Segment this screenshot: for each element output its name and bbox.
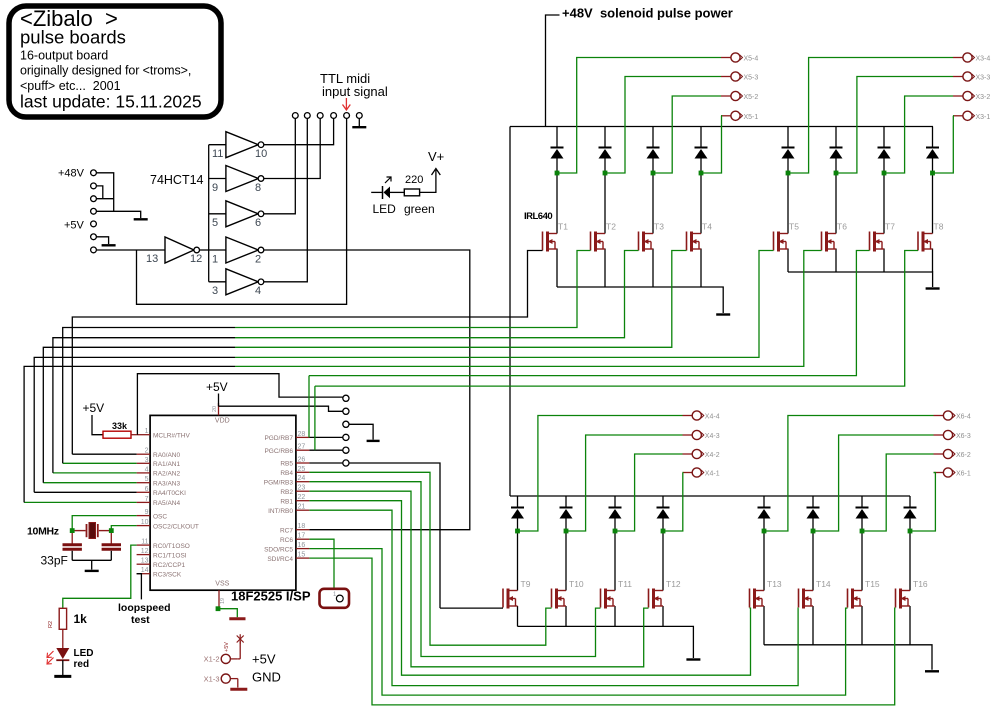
pin 1 MCLR#/THV <box>137 434 151 436</box>
wire pad2 down <box>96 186 102 199</box>
wire to LED green <box>371 191 382 193</box>
power pad 2 <box>91 183 97 189</box>
wire PGC riser <box>314 386 316 450</box>
svg-text:22: 22 <box>298 494 306 501</box>
svg-text:X3-1: X3-1 <box>976 114 991 121</box>
wire output net to X4-3 <box>566 435 683 531</box>
power pad 6 <box>91 234 97 240</box>
wire drain column T3 upper <box>652 127 654 148</box>
transistor T15 <box>848 589 863 609</box>
svg-text:X6-2: X6-2 <box>956 452 971 459</box>
wire to capacitor C1 33pF <box>71 533 73 544</box>
header pad 5 <box>344 113 350 119</box>
wire node to drain T15 <box>861 531 863 591</box>
wire diode to node T8 <box>932 159 934 174</box>
diode D3 <box>647 148 660 159</box>
wire VSS to ground <box>218 609 237 618</box>
svg-text:RB4: RB4 <box>280 470 293 477</box>
svg-text:10: 10 <box>141 519 149 526</box>
svg-text:X1-3: X1-3 <box>204 674 220 683</box>
wire source T1 <box>556 249 558 288</box>
wire output net to X6-2 <box>862 454 934 531</box>
wire output net to X5-2 <box>653 96 721 173</box>
svg-text:RB1: RB1 <box>280 498 293 505</box>
pin 22 RB1 <box>296 500 310 502</box>
svg-text:INT/RB0: INT/RB0 <box>268 508 293 515</box>
svg-text:11: 11 <box>141 539 148 546</box>
svg-text:RB2: RB2 <box>280 489 293 496</box>
wire source T6 <box>835 249 837 273</box>
wire 74HCT14 input bus <box>208 145 210 282</box>
wire RA3 to T4 gate (pin run) <box>43 482 136 484</box>
svg-text:33pF: 33pF <box>41 554 68 568</box>
node T9 drain junction <box>515 529 520 534</box>
svg-text:12: 12 <box>190 253 202 265</box>
supply +5V arrow X1 <box>237 634 244 659</box>
transistor T10 <box>552 589 567 609</box>
wire RC3 loopspeed test <box>137 574 142 600</box>
wire source T4 <box>700 249 702 288</box>
wire drain column T14 upper <box>812 496 814 508</box>
capacitor C1 33pF <box>63 545 82 550</box>
connector pin X3-1 <box>953 115 963 117</box>
svg-text:+5V: +5V <box>64 220 85 232</box>
pin 6 RA4/T0CKI <box>137 491 151 493</box>
transistor T1 <box>543 232 558 252</box>
svg-text:VSS: VSS <box>215 581 229 588</box>
wire source rail T9-T12 <box>518 626 694 658</box>
node T16 drain junction <box>908 529 913 534</box>
svg-text:9: 9 <box>145 509 149 516</box>
wire 1k to LED <box>62 629 64 648</box>
node T10 drain junction <box>564 529 569 534</box>
wire source T3 <box>652 249 654 288</box>
svg-text:+5V: +5V <box>224 642 230 652</box>
svg-text:220: 220 <box>405 174 423 186</box>
wire diode to node T10 <box>565 519 567 532</box>
wire node to drain T14 <box>812 531 814 591</box>
svg-text:IRL640: IRL640 <box>524 211 552 222</box>
diode D8 <box>926 148 939 159</box>
wire VDD to ICSP pad2 <box>219 406 343 411</box>
svg-text:1: 1 <box>212 253 218 265</box>
svg-text:LED: LED <box>74 648 94 659</box>
svg-text:4: 4 <box>255 285 261 297</box>
svg-text:RC3/SCK: RC3/SCK <box>153 571 182 578</box>
wire node to drain T8 <box>932 173 934 234</box>
ground ICSP <box>367 440 380 442</box>
svg-text:2: 2 <box>145 448 149 455</box>
node T3 drain junction <box>651 171 656 176</box>
wire pad4 to inverter out 10 <box>264 118 334 144</box>
svg-text:T3: T3 <box>654 222 664 232</box>
wire pad1 down <box>96 173 113 212</box>
diode D16 <box>904 508 917 519</box>
svg-text:18: 18 <box>298 523 306 530</box>
wire output net to X5-1 <box>701 116 722 173</box>
wire node to drain T9 <box>517 531 519 591</box>
wire pad2 to inverter out 4 <box>264 118 307 281</box>
resistor R2 1k <box>59 608 66 629</box>
svg-text:18F2525 I/SP: 18F2525 I/SP <box>231 589 311 604</box>
pin 27 PGC/RB6 <box>296 449 310 451</box>
wire RC0 to 1k <box>63 545 137 608</box>
svg-text:28: 28 <box>298 431 306 438</box>
wire diode to node T3 <box>652 159 654 174</box>
pin 13 RC2/CCP1 <box>137 563 151 565</box>
svg-text:10: 10 <box>255 148 267 160</box>
diode D14 <box>807 508 820 519</box>
diode D2 <box>599 148 612 159</box>
wire diode to node T14 <box>812 519 814 532</box>
svg-text:T12: T12 <box>666 579 681 589</box>
inverter gate 1->2 <box>209 237 264 263</box>
wire RA0 to T1 gate (right) <box>235 251 543 318</box>
svg-text:T2: T2 <box>606 222 616 232</box>
resistor R1 33k <box>103 431 131 438</box>
power pad 1 <box>91 170 97 176</box>
wire diode to node T15 <box>861 519 863 532</box>
wire RA2 to T3 gate (pin run) <box>53 472 137 474</box>
svg-text:12: 12 <box>141 548 149 555</box>
svg-text:17: 17 <box>298 533 306 540</box>
diode D1 <box>551 148 564 159</box>
svg-text:16-output board: 16-output board <box>20 49 108 63</box>
connector pin X6-1 <box>934 472 944 474</box>
svg-text:1k: 1k <box>74 612 88 626</box>
resistor 220 <box>404 189 419 196</box>
wire pad3 join <box>96 198 113 200</box>
node T5 drain junction <box>786 171 791 176</box>
inverter gate 13->12 <box>97 237 209 263</box>
pin 9 OSC <box>137 515 151 517</box>
svg-text:X4-4: X4-4 <box>705 414 720 421</box>
LED red diode <box>47 648 69 664</box>
svg-text:LED: LED <box>373 202 397 216</box>
transistor T5 <box>774 232 789 252</box>
IC U1 18F2525 body <box>150 415 296 590</box>
node T4 drain junction <box>699 171 704 176</box>
svg-text:RC6: RC6 <box>280 537 293 544</box>
ICSP pad 3 <box>343 421 349 427</box>
wire source T10 <box>565 606 567 626</box>
svg-text:+48V solenoid pulse power: +48V solenoid pulse power <box>562 6 733 21</box>
connector pin X4-4 <box>683 415 693 417</box>
wire output net to X6-1 <box>910 473 935 532</box>
transistor T13 <box>750 589 765 609</box>
wire source T9 <box>517 606 519 626</box>
node T15 drain junction <box>860 529 865 534</box>
wire RA2 to T3 gate (right) <box>235 251 639 338</box>
ground T13-T16 <box>925 670 939 672</box>
transistor T2 <box>591 232 606 252</box>
pin 26 RB5 <box>296 462 310 464</box>
transistor T3 <box>639 232 654 252</box>
pin 18 RC7 <box>296 529 310 531</box>
svg-text:X6-1: X6-1 <box>956 471 971 478</box>
svg-text:X5-4: X5-4 <box>744 56 759 63</box>
ICSP pad 1 <box>343 395 349 401</box>
svg-text:RC2/CCP1: RC2/CCP1 <box>153 562 186 569</box>
svg-text:+5V: +5V <box>83 401 105 415</box>
wire RC5 to T15 gate <box>309 549 847 696</box>
connector pin X1-2 <box>230 658 237 660</box>
svg-text:X6-4: X6-4 <box>956 414 971 421</box>
svg-text:74HCT14: 74HCT14 <box>150 173 204 187</box>
svg-text:VDD: VDD <box>215 418 230 425</box>
svg-text:6: 6 <box>255 217 261 229</box>
wire RB6 to T8 gate <box>315 251 918 387</box>
svg-text:1: 1 <box>145 428 149 435</box>
connector pin X3-4 <box>953 57 963 59</box>
wire output net to X5-3 <box>605 77 721 174</box>
wire diode to node T4 <box>700 159 702 174</box>
wire +48V to lower bank <box>509 127 511 497</box>
wire PGD to ICSP pad4 <box>309 436 342 438</box>
wire RA3 to T4 gate (right) <box>235 251 687 348</box>
svg-text:X5-2: X5-2 <box>744 94 759 101</box>
wire drain column T16 upper <box>909 496 911 508</box>
pin 11 RC0/T1OSO <box>137 544 151 546</box>
ICSP pad 4 <box>343 434 349 440</box>
svg-text:SDI/RC4: SDI/RC4 <box>267 556 293 563</box>
wire source T12 <box>662 606 664 626</box>
wire source T7 <box>883 249 885 273</box>
diode D5 <box>782 148 795 159</box>
node T6 drain junction <box>834 171 839 176</box>
wire output net to X3-1 <box>933 116 954 173</box>
svg-text:X5-3: X5-3 <box>744 75 759 82</box>
svg-text:T16: T16 <box>913 579 928 589</box>
wire RB2 to T12 gate <box>309 491 648 667</box>
connector pin X6-3 <box>934 434 944 436</box>
transistor T12 <box>649 589 664 609</box>
pin 5 RA3/AN3 <box>137 482 151 484</box>
svg-text:T4: T4 <box>702 222 712 232</box>
wire ICSP pad3 to ground <box>349 424 373 439</box>
wire node to drain T12 <box>662 531 664 591</box>
wire diode to node T12 <box>662 519 664 532</box>
ground X1-3 <box>230 688 247 691</box>
wire node to drain T16 <box>909 531 911 591</box>
wire drain column T1 upper <box>556 127 558 148</box>
connector pin X4-2 <box>683 453 693 455</box>
svg-text:OSC: OSC <box>153 513 167 520</box>
wire +48V rail lower <box>510 495 910 497</box>
svg-text:9: 9 <box>212 182 218 194</box>
svg-text:23: 23 <box>298 485 306 492</box>
svg-text:originally designed for <troms: originally designed for <troms>, <box>20 64 191 78</box>
ICSP pad 6 <box>343 460 349 466</box>
wire node to drain T1 <box>556 173 558 234</box>
svg-text:R2: R2 <box>48 621 54 628</box>
svg-text:7: 7 <box>145 496 149 503</box>
node T2 drain junction <box>603 171 608 176</box>
wire source T5 <box>787 249 789 273</box>
wire source T2 <box>604 249 606 288</box>
ground T5-T8 <box>926 287 940 289</box>
ground midi header <box>352 126 366 128</box>
wire source T13 <box>763 606 765 645</box>
transistor T8 <box>918 232 933 252</box>
wire RC4 to T16 gate <box>309 558 895 705</box>
node T8 drain junction <box>930 171 935 176</box>
wire diode to node T7 <box>883 159 885 174</box>
connector pin X1-3 <box>230 678 237 680</box>
svg-text:T7: T7 <box>885 222 895 232</box>
node T1 drain junction <box>555 171 560 176</box>
ground +48V group <box>134 218 148 220</box>
svg-text:X4-2: X4-2 <box>705 452 720 459</box>
pin 20 VDD stub <box>218 403 220 415</box>
node T11 drain junction <box>613 529 618 534</box>
svg-text:RA5/AN4: RA5/AN4 <box>153 500 180 507</box>
wire source rail T5-T8 <box>788 272 933 287</box>
wire output net to X4-1 <box>663 473 683 532</box>
wire node to drain T7 <box>883 173 885 234</box>
wire RA0 to T1 gate (left) <box>72 317 235 454</box>
wire RA4 to T5 gate (pin run) <box>34 491 136 493</box>
svg-text:X3-2: X3-2 <box>976 94 991 101</box>
svg-text:loopspeed: loopspeed <box>118 602 171 614</box>
transistor T11 <box>601 589 616 609</box>
wire drain column T13 upper <box>763 496 765 508</box>
wire diode to node T2 <box>604 159 606 174</box>
svg-text:5: 5 <box>212 217 218 229</box>
wire output net to X3-4 <box>788 58 953 174</box>
wire RA0 to T1 gate (pin run) <box>72 453 136 455</box>
transistor T9 <box>503 589 518 609</box>
wire drain column T2 upper <box>604 127 606 148</box>
wire RA1 to T2 gate (pin run) <box>63 462 137 464</box>
svg-text:T10: T10 <box>569 579 584 589</box>
svg-text:24: 24 <box>298 475 306 482</box>
pin 15 SDI/RC4 <box>296 557 310 559</box>
pin 14 RC3/SCK <box>137 573 151 575</box>
wire 33k to MCLR pin 1 <box>131 434 137 436</box>
svg-text:pulse boards: pulse boards <box>20 27 126 48</box>
svg-text:13: 13 <box>141 558 149 565</box>
svg-text:T11: T11 <box>618 579 632 589</box>
transistor T6 <box>822 232 837 252</box>
inverter gate 3->4 <box>209 269 264 295</box>
ground T9-T12 <box>686 658 700 660</box>
power pad 4 <box>91 208 97 214</box>
wire source T14 <box>812 606 814 645</box>
wire output net to X5-4 <box>557 58 721 174</box>
svg-text:26: 26 <box>298 457 306 464</box>
svg-text:X4-3: X4-3 <box>705 433 720 440</box>
power pad 3 <box>91 196 97 202</box>
pin 25 RB4 <box>296 471 310 473</box>
header pad 4 <box>331 113 337 119</box>
wire PGC to ICSP pad5 <box>309 449 342 451</box>
wire resistor to V+ <box>420 170 436 192</box>
wire drain column T6 upper <box>835 127 837 148</box>
svg-text:X5-1: X5-1 <box>744 114 759 121</box>
svg-text:8: 8 <box>255 182 261 194</box>
wire diode to node T16 <box>909 519 911 532</box>
wire PGD riser <box>308 376 310 438</box>
svg-text:RA0/AN0: RA0/AN0 <box>153 452 180 459</box>
wire +5V to resistor <box>92 415 103 435</box>
pin 28 PGD/RB7 <box>296 436 310 438</box>
svg-text:RA1/AN1: RA1/AN1 <box>153 461 180 468</box>
svg-text:2: 2 <box>255 253 261 265</box>
ground LED red <box>54 675 71 678</box>
diode D4 <box>695 148 708 159</box>
inverter gate 9->8 <box>209 166 264 192</box>
wire node to drain T4 <box>700 173 702 234</box>
wire RA1 to T2 gate (left) <box>63 328 235 464</box>
svg-text:input signal: input signal <box>322 84 388 99</box>
wire capacitor C2 33pF to ground <box>110 551 112 561</box>
wire diode to node T1 <box>556 159 558 174</box>
ground crystal <box>85 570 99 572</box>
test pad S1 <box>320 589 350 608</box>
transistor T16 <box>896 589 911 609</box>
diode D13 <box>758 508 771 519</box>
svg-text:RA3/AN3: RA3/AN3 <box>153 480 180 487</box>
wire output net to X4-2 <box>615 454 683 531</box>
wire source T15 <box>861 606 863 645</box>
wire +48V rail upper <box>510 126 933 128</box>
svg-text:T15: T15 <box>865 579 880 589</box>
wire RA5 to T6 gate (pin run) <box>24 501 137 503</box>
wire pad3 to inverter out 8 <box>264 118 320 178</box>
svg-text:T1: T1 <box>558 222 568 232</box>
connector pin X5-2 <box>721 95 731 97</box>
diode D9 <box>511 508 524 519</box>
wire source rail T1-T4 <box>557 287 723 313</box>
wire node to drain T13 <box>763 531 765 591</box>
connector pin X3-2 <box>953 95 963 97</box>
wire drain column T7 upper <box>883 127 885 148</box>
wire RB4 to T10 gate <box>309 472 551 645</box>
wire output net to X3-2 <box>884 96 953 173</box>
svg-text:T8: T8 <box>934 222 944 232</box>
wire RA4 to T5 gate (left) <box>34 357 235 492</box>
wire diode to node T5 <box>787 159 789 174</box>
wire LED to ground <box>62 660 64 675</box>
wire diode to node T11 <box>614 519 616 532</box>
svg-text:10MHz: 10MHz <box>27 526 59 538</box>
connector pin X6-4 <box>934 415 944 417</box>
transistor T14 <box>799 589 814 609</box>
pin 4 RA2/AN2 <box>137 472 151 474</box>
wire RA2 to T3 gate (left) <box>53 338 235 473</box>
svg-text:3: 3 <box>145 457 149 464</box>
svg-text:6: 6 <box>145 486 149 493</box>
svg-text:27: 27 <box>298 444 306 451</box>
pin 24 PGM/RB3 <box>296 481 310 483</box>
svg-text:V+: V+ <box>428 149 444 164</box>
wire source T8 <box>932 249 934 273</box>
ground VSS <box>229 617 245 620</box>
wire diode to node T13 <box>763 519 765 532</box>
wire RB3 to T11 gate <box>309 482 600 657</box>
header pad 6 <box>356 113 362 119</box>
svg-text:red: red <box>74 659 90 670</box>
wire drain column T5 upper <box>787 127 789 148</box>
wire node to drain T10 <box>565 531 567 591</box>
header pad 1 <box>292 113 298 119</box>
svg-text:PGC/RB6: PGC/RB6 <box>264 448 293 455</box>
power pad 7 <box>91 247 97 253</box>
wire LED to resistor <box>390 191 404 193</box>
wire capacitor C1 33pF to ground <box>71 551 73 561</box>
wire output net to X3-3 <box>836 77 953 174</box>
